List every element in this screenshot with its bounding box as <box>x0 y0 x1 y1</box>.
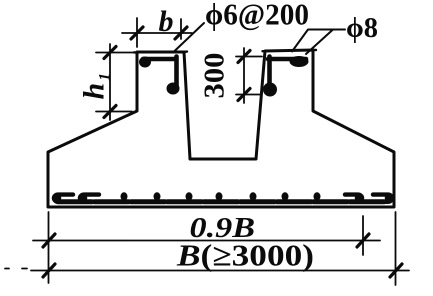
dimension 0.9B: right extension <box>362 216 364 255</box>
wall top overshoot left <box>134 50 187 53</box>
dimension b: right extension <box>180 19 182 39</box>
dimension 300: bottom tick <box>238 89 250 101</box>
rebar left end hook 1 <box>54 195 73 202</box>
distribution bar dot 4 <box>216 192 223 200</box>
dimension 0.9B: right tick <box>357 234 369 247</box>
dimension b: line <box>122 32 192 34</box>
dimension h1: bottom tick <box>104 106 116 118</box>
distribution bar dot 3 <box>186 192 193 200</box>
rebar right end hook 1 <box>345 195 362 202</box>
dimension h1: top extension <box>96 52 134 54</box>
distribution bar dot 6 <box>282 192 289 200</box>
distribution bar dot 2 <box>154 192 161 200</box>
dimension B: left tick <box>43 264 55 277</box>
dimension 300: line <box>243 48 245 103</box>
bottom main rebar <box>58 199 386 204</box>
dimension b: left extension <box>136 18 138 47</box>
dimension h1: top tick <box>104 47 116 59</box>
distribution bar dot 1 <box>121 192 128 200</box>
dimension 300: top tick <box>238 51 250 63</box>
svg-text:300: 300 <box>200 53 231 99</box>
foundation outline <box>48 50 394 207</box>
shared left extension line <box>48 212 50 283</box>
svg-text:b: b <box>159 5 174 38</box>
dimension B: line <box>5 269 409 271</box>
wall top overshoot right <box>263 50 317 51</box>
svg-text:B(≥3000): B(≥3000) <box>176 238 314 273</box>
dimension 300: bottom extension <box>236 94 260 96</box>
right wall top bar phi8 <box>268 57 306 62</box>
svg-text:ϕ8: ϕ8 <box>346 13 378 44</box>
rebar left end hook 2 <box>80 195 99 202</box>
leader line phi8 <box>292 30 345 55</box>
distribution bar dot 7 <box>314 192 321 200</box>
dimension b: right tick <box>175 27 187 39</box>
dimension 0.9B: line <box>33 240 380 242</box>
dimension h1: line <box>109 44 111 120</box>
dimension b: left tick <box>131 27 143 39</box>
dimension h1: bottom extension <box>96 111 132 113</box>
dimension 0.9B: left tick <box>43 234 55 247</box>
leader line phi6@200 <box>173 23 204 53</box>
rebar right end hook 2 <box>373 195 392 202</box>
left wall top bar phi8 <box>143 57 176 62</box>
dimension 300: top extension <box>236 56 262 58</box>
dimension B: right tick <box>390 264 402 277</box>
svg-text:ϕ6@200: ϕ6@200 <box>205 0 309 32</box>
right edge extension line <box>395 212 397 285</box>
left wall vertical bar with bottom hook <box>174 57 179 87</box>
right wall vertical bar with bottom hook <box>267 57 272 87</box>
distribution bar dot 5 <box>250 192 257 200</box>
